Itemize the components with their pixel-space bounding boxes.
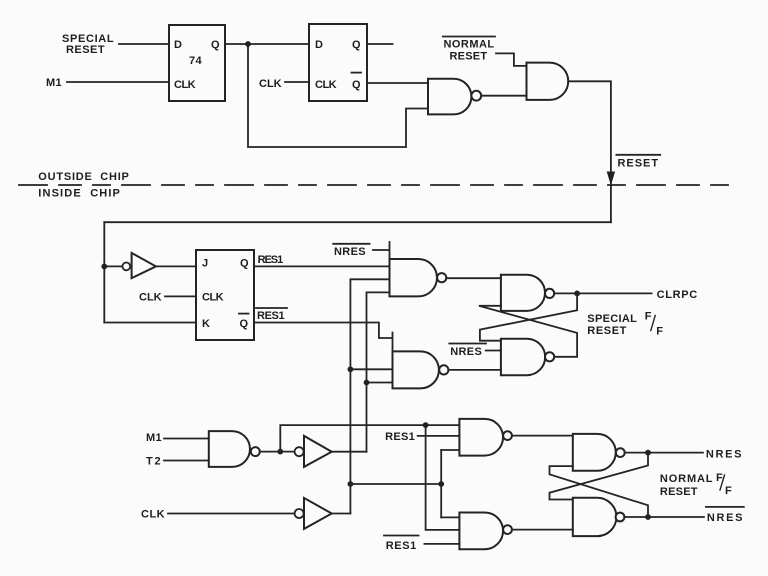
wire T2 to NAND G8 (164, 460, 209, 462)
svg-text:RES1: RES1 (257, 310, 285, 322)
wire NORMAL RESET to AND G2 upper input (496, 53, 527, 66)
wire G11 output to G14 lower input (512, 529, 573, 531)
NAND gate G14 (normal latch bottom) (573, 498, 625, 536)
svg-text:OUTSIDE CHIP: OUTSIDE CHIP (38, 171, 129, 183)
node junction NRESbar feedback (645, 514, 651, 520)
svg-text:Q: Q (352, 79, 361, 91)
NAND gate G13 (normal latch top) (573, 434, 625, 471)
wire feedback from node down to NAND G1 lower input (248, 44, 428, 147)
wire SPECIAL RESET to U1.D (119, 43, 169, 45)
chip boundary dashed line (19, 184, 728, 186)
wire left rail down to K input (103, 222, 105, 322)
wire G5 output to NAND G7 lower input (448, 369, 501, 371)
node junction feed rail (438, 481, 444, 487)
wire cross feedback G6 out to G7 top input (480, 293, 577, 340)
wire G4 output to NAND G6 (446, 277, 501, 279)
wire U1.Q to U2.D (225, 43, 309, 45)
wire CLK-buffered rail (vertical) to G4 and G5 (350, 279, 392, 513)
svg-text:NORMAL: NORMAL (444, 39, 495, 51)
svg-text:74: 74 (189, 55, 203, 67)
NAND gate G7 (special latch bottom) (501, 339, 554, 376)
svg-text:RESET: RESET (66, 44, 105, 56)
AND gate G2 (527, 63, 569, 100)
node junction at vertical RES1 rail (423, 422, 429, 428)
wire left rail to U3.K (104, 322, 196, 324)
svg-text:F: F (656, 326, 663, 338)
node junction rail/G5 input (348, 366, 354, 372)
wire CLK to U2.CLK (285, 81, 309, 83)
svg-text:RES1: RES1 (385, 431, 415, 443)
NAND gate G1 (428, 79, 481, 115)
NAND gate G4 (4-input) (390, 259, 447, 296)
wire U2.Q output stub (367, 43, 393, 45)
svg-text:D: D (315, 39, 323, 51)
wire cross feedback G7 out to G6 lower input (479, 306, 577, 357)
buffer G9 (input bubble) (295, 447, 304, 456)
D flip-flop U1 (74) (169, 25, 225, 101)
svg-text:CLK: CLK (139, 292, 162, 304)
wire CLK to U3.CLK (165, 295, 196, 297)
wire M1T2-buffered rail (vertical) to G4 and G5 (367, 292, 393, 451)
svg-text:CLK: CLK (202, 292, 224, 304)
node junction rail/bottom branch (348, 481, 354, 487)
svg-text:Q: Q (240, 318, 249, 330)
label NORMAL RESET (overlined NORMAL) (444, 39, 495, 63)
svg-text:SPECIAL: SPECIAL (587, 313, 637, 325)
wire G8 output up and right to gate G10 / RES1 rail (280, 425, 459, 452)
wire NRESbar stub to G7 middle input (486, 350, 501, 352)
wire M1 to U1.CLK (67, 81, 169, 83)
node junction CLRPC feedback (574, 291, 580, 297)
node junction at U1.Q (245, 41, 251, 47)
svg-text:RES1: RES1 (386, 540, 417, 552)
svg-text:CLRPC: CLRPC (657, 289, 698, 301)
svg-text:CLK: CLK (141, 509, 165, 521)
wire CLK to buffer G12 (168, 513, 295, 515)
inverter G3 (input bubble buffer to J) (104, 265, 122, 267)
svg-text:CLK: CLK (174, 79, 196, 91)
wire G3 output to U3.J (156, 265, 196, 267)
NAND gate G8 (M1 T2) (209, 431, 260, 467)
node junction NRES feedback (645, 450, 651, 456)
wire feed rail into G11 top input (441, 516, 459, 518)
svg-text:M1: M1 (146, 432, 162, 444)
svg-text:NRES: NRES (334, 246, 366, 258)
wire RES1 stub into G10 middle input (418, 435, 460, 437)
wire G6 output to CLRPC (554, 292, 651, 294)
NAND gate G6 (special latch top) (501, 275, 554, 311)
wire RES1bar from U3.Qbar stepping to NAND G5 top input (254, 323, 393, 352)
wire G8 output to buffer G9 (260, 451, 295, 453)
wire G14 output to NRESbar (624, 516, 704, 518)
wire branch from CLK rail to G10/G11 feed rail (350, 450, 441, 517)
svg-text:NORMAL: NORMAL (660, 473, 713, 485)
svg-text:RESET: RESET (660, 486, 698, 498)
node junction rail/G5 input (364, 380, 370, 386)
wire G10 output to G13 (512, 435, 573, 437)
svg-text:M1: M1 (46, 77, 62, 89)
svg-text:RESET: RESET (587, 325, 627, 337)
svg-text:CLK: CLK (259, 78, 282, 90)
svg-text:NRES: NRES (450, 346, 482, 358)
arrowhead on RESET wire at chip boundary (607, 172, 615, 186)
buffer G12 (input bubble) (295, 509, 304, 518)
wire cross feedback G13 out to G14 top input (550, 453, 649, 500)
svg-text:F: F (725, 485, 732, 497)
NAND gate G10 (normal latch drive top) (459, 419, 512, 456)
wire G2 output right and down (RESET into chip) (568, 81, 611, 222)
NAND gate G11 (normal latch drive bottom) (459, 513, 512, 550)
svg-text:RES1: RES1 (258, 254, 284, 266)
wire RES1 from U3.Q to NAND G4 (254, 265, 390, 267)
svg-text:Q: Q (240, 258, 249, 270)
wire U2.Qbar to NAND G1 upper input (367, 82, 428, 84)
JK flip-flop U3 (196, 250, 254, 340)
overline U3 Qbar (239, 313, 249, 315)
wire cross feedback G14 out to G13 lower input (550, 466, 649, 517)
node junction at inverter input (101, 264, 107, 270)
wire G13 output to NRES (625, 452, 703, 454)
wire NRESbar stub into NAND G4 top (373, 242, 390, 259)
D flip-flop U2 (309, 24, 367, 101)
label SPECIAL RESET (62, 33, 114, 56)
svg-text:J: J (202, 258, 209, 270)
label SPECIAL F/F RESET (587, 311, 663, 338)
svg-text:Q: Q (352, 39, 361, 51)
label NORMAL F/F RESET (660, 472, 732, 498)
svg-text:INSIDE CHIP: INSIDE CHIP (38, 188, 120, 200)
svg-text:Q: Q (211, 39, 220, 51)
wire RES1bar stub into G11 bottom input (424, 543, 459, 545)
wire G9 output right then up the M1T2 rail (332, 451, 367, 453)
svg-text:K: K (202, 318, 210, 330)
wire G12 output right then up the CLK rail (332, 513, 351, 515)
wire M1 to NAND G8 (164, 438, 209, 440)
wire G1 output to AND G2 lower input (481, 95, 526, 97)
wire RESET across bottom to left rail (104, 221, 611, 223)
NAND gate G5 (3-input) (393, 351, 449, 388)
svg-text:F: F (645, 311, 652, 323)
svg-text:CLK: CLK (315, 79, 337, 91)
node junction G8 output branch (277, 449, 283, 455)
svg-text:D: D (174, 39, 182, 51)
wire vertical rail down to G11 middle input (426, 425, 460, 530)
overline U2 Qbar (352, 72, 362, 74)
svg-text:RESET: RESET (618, 158, 659, 170)
svg-text:T2: T2 (146, 456, 161, 468)
svg-text:RESET: RESET (450, 51, 488, 63)
wire feed rail into G10 bottom input (441, 449, 459, 451)
